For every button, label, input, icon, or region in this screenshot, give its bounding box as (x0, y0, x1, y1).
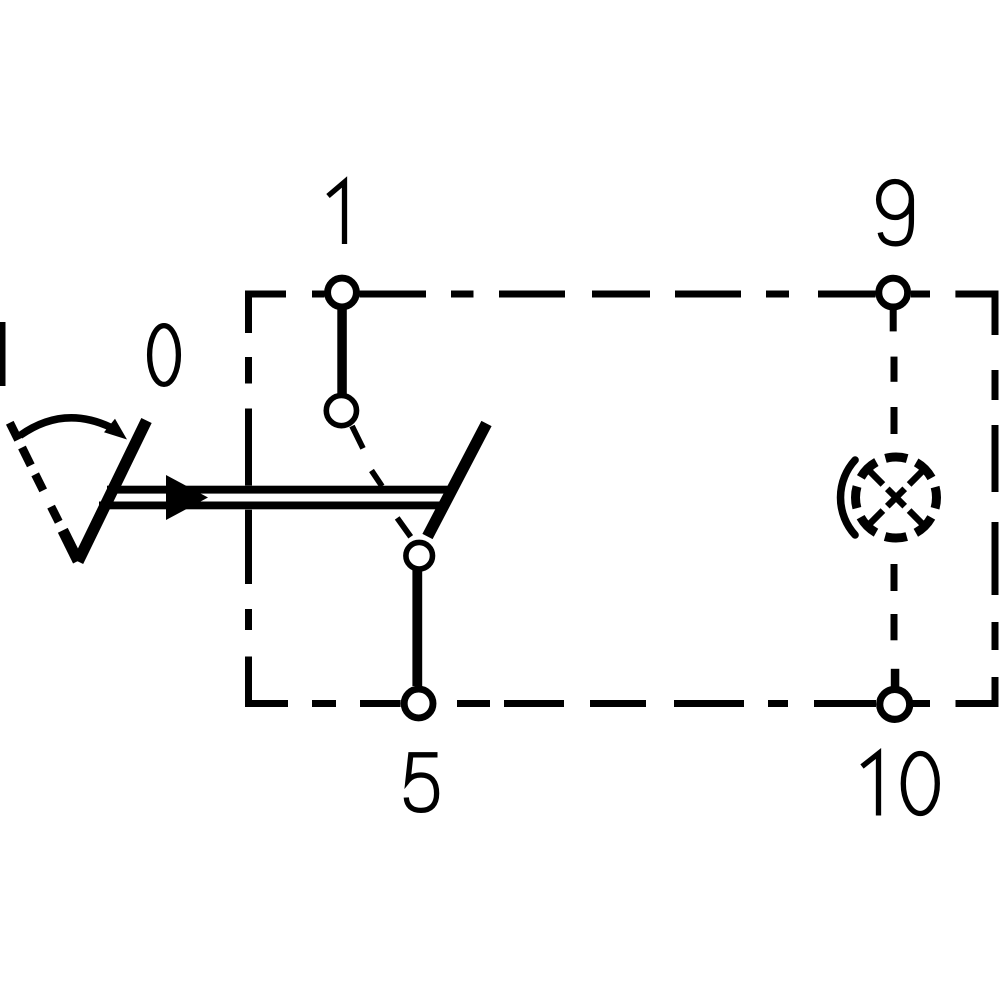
contact pivot circle pole 2 (406, 542, 433, 569)
enclosure bottom border (dash-dot) (245, 700, 999, 707)
conductor terminal 1 to pivot contact (337, 306, 347, 396)
actuator lever dashed (position I) (10, 423, 59, 522)
label position I (clipped at left edge) (0, 322, 6, 386)
actuator lever solid (position 0) (78, 421, 147, 562)
stub above terminal 10 (891, 669, 900, 689)
label terminal 1 (328, 182, 345, 244)
dashed blade path pole 1 (closed position shown dashed) (352, 426, 411, 537)
label terminal 9 (879, 182, 912, 244)
label position 0 (150, 326, 179, 385)
stub below terminal 9 (890, 308, 897, 331)
conductor pivot to terminal 5 (412, 569, 422, 686)
second enclosure right edge (clipped at image edge) (992, 291, 999, 708)
switch blade pole 2 (solid, open position) (428, 424, 487, 537)
actuator bar upper line (107, 486, 452, 494)
enclosure left border (dash-dot) (245, 291, 252, 708)
terminal circle 10 (880, 689, 910, 719)
terminal circle 5 (404, 689, 433, 718)
label terminal 5 (406, 755, 437, 811)
rotation arc arrow (20, 418, 110, 436)
actuator bar lower line (99, 502, 441, 510)
lamp rays (869, 471, 923, 525)
contact pivot circle pole 1 (326, 396, 356, 426)
enclosure top border (dash-dot) (245, 291, 999, 298)
lamp X center (887, 489, 904, 506)
dashed lever solid arm at pivot vertex (63, 530, 78, 561)
enclosure right border (dashed, through lamp) (891, 357, 898, 641)
lamp reflector arc (841, 460, 856, 535)
terminal circle 9 (879, 278, 908, 307)
lamp dashed circle (856, 457, 937, 538)
label terminal 10 (862, 754, 879, 816)
actuator bar arrowhead (166, 475, 208, 520)
terminal circle 1 (328, 278, 357, 307)
